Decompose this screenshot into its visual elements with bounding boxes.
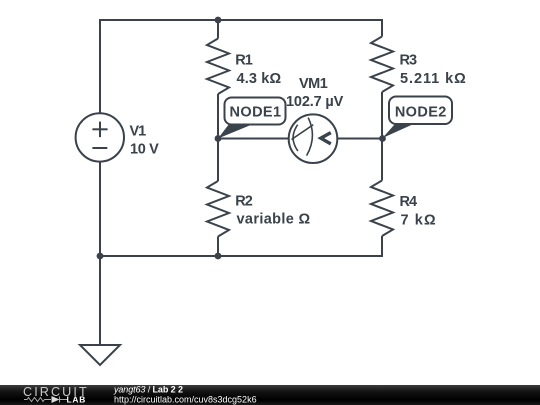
svg-text:R4: R4 — [400, 194, 417, 210]
voltmeter VM1 — [289, 114, 338, 163]
wire R1 to node A — [217, 94, 219, 139]
svg-text:R2: R2 — [235, 194, 252, 210]
junction bottom rail / V1 — [97, 253, 104, 260]
wire bottom rail with right corner drop — [100, 236, 382, 256]
svg-text:NODE1: NODE1 — [230, 105, 282, 121]
svg-text:LAB: LAB — [67, 394, 87, 404]
ground — [80, 345, 120, 365]
resistor R1 — [207, 39, 229, 95]
junction node B (NODE2) — [379, 135, 386, 142]
svg-text:V1: V1 — [130, 124, 147, 140]
svg-text:R1: R1 — [235, 53, 252, 69]
svg-text:7 kΩ: 7 kΩ — [401, 212, 437, 228]
svg-text:5.211 kΩ: 5.211 kΩ — [400, 71, 467, 87]
footer logo resistor-diode glyph — [24, 397, 67, 403]
svg-text:R3: R3 — [400, 53, 417, 69]
svg-text:variable Ω: variable Ω — [237, 212, 311, 228]
node label NODE1 — [218, 98, 286, 139]
wire node B to R4 — [381, 139, 383, 181]
wire node A to voltmeter — [218, 138, 289, 140]
junction bottom rail / R2 — [215, 253, 222, 260]
svg-text:yangt63 / Lab 2 2: yangt63 / Lab 2 2 — [113, 384, 183, 394]
wire left branch lower — [99, 162, 101, 256]
junction top rail / R1 — [215, 17, 222, 24]
svg-text:VM1: VM1 — [299, 76, 328, 92]
svg-text:10 V: 10 V — [130, 141, 159, 157]
junction node A (NODE1) — [215, 135, 222, 142]
svg-text:http://circuitlab.com/cuv8s3dc: http://circuitlab.com/cuv8s3dcg52k6 — [114, 395, 257, 405]
voltage source V1 — [76, 113, 124, 161]
wire node A to R2 — [217, 139, 219, 182]
wire top rail with corner drops — [100, 20, 382, 113]
wire ground lead — [99, 256, 101, 345]
svg-text:NODE2: NODE2 — [395, 105, 447, 121]
node label NODE2 — [383, 97, 453, 139]
wire R2 bottom lead — [217, 237, 219, 257]
wire R3 to node B — [381, 92, 383, 139]
svg-text:4.3 kΩ: 4.3 kΩ — [237, 71, 282, 87]
resistor R3 — [371, 37, 393, 93]
wire voltmeter to node B — [337, 138, 382, 140]
footer bar — [0, 385, 540, 405]
resistor R2 — [207, 181, 229, 237]
resistor R4 — [371, 181, 393, 237]
svg-text:102.7 µV: 102.7 µV — [286, 94, 344, 110]
wire R1 top lead — [217, 20, 219, 39]
